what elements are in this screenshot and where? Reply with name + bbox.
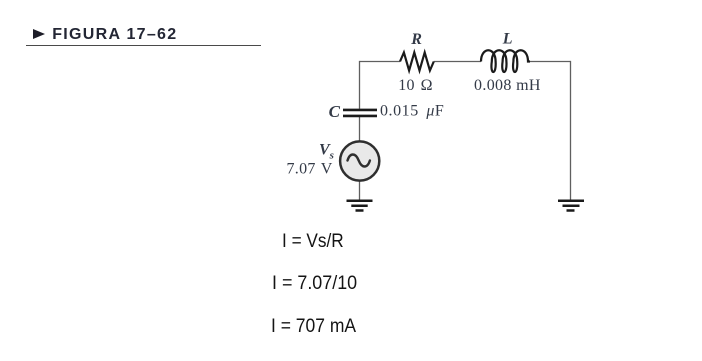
figure title text (52, 27, 177, 43)
svg-text:10 Ω: 10 Ω (398, 77, 433, 94)
title underline (26, 45, 261, 47)
wire: capacitor to source (359, 116, 361, 142)
svg-text:0.015 μF: 0.015 μF (380, 103, 444, 120)
svg-text:R: R (410, 31, 422, 48)
wire: between resistor and inductor (434, 61, 481, 63)
resistor R1 zigzag (400, 53, 434, 71)
svg-text:L: L (502, 31, 513, 48)
svg-text:7.07 V: 7.07 V (287, 161, 333, 178)
source sine wave (348, 155, 370, 167)
wire: right vertical (570, 61, 572, 201)
source Vs circle (340, 141, 379, 180)
wire: top-left horizontal segment (360, 61, 401, 63)
wire: inductor to top-right corner (530, 61, 571, 63)
capacitor C1 top plate (343, 109, 377, 112)
ground (left, under source) (347, 201, 373, 211)
equation line 2 (272, 274, 357, 294)
wire: left vertical above capacitor (359, 61, 361, 109)
capacitor C1 bottom plate (343, 115, 377, 118)
svg-text:C: C (329, 102, 341, 121)
equation line 3 (271, 317, 356, 337)
svg-text:0.008 mH: 0.008 mH (474, 77, 541, 94)
figure title arrow (33, 29, 45, 39)
inductor L1 coil (481, 50, 530, 72)
wire: source to left ground (359, 180, 361, 201)
equation line 1 (282, 232, 344, 252)
ground (right) (558, 201, 584, 211)
svg-text:Vs: Vs (319, 142, 334, 162)
